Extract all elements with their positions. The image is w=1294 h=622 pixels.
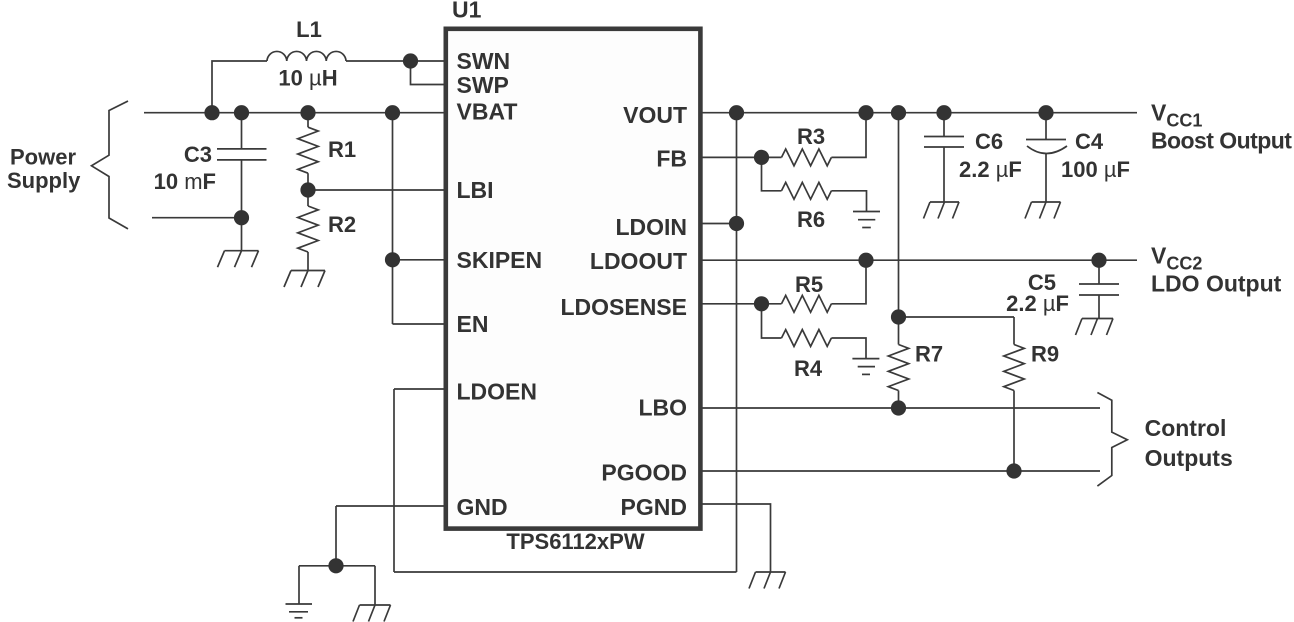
resistor R9 <box>1004 317 1059 471</box>
resistor R3 <box>762 113 867 166</box>
node LDOIN <box>729 216 744 231</box>
resistor R2 <box>298 190 356 271</box>
svg-text:VCC2: VCC2 <box>1151 243 1202 274</box>
ground (earth) below R6 <box>853 212 880 228</box>
wire LDOOUT rail <box>700 259 1137 261</box>
wire LDOEN <box>394 388 446 390</box>
svg-text:Control: Control <box>1145 415 1227 441</box>
svg-text:SKIPEN: SKIPEN <box>457 247 543 273</box>
wire LDOIN riser <box>736 113 738 572</box>
ground (chassis) below C3 <box>218 251 259 268</box>
node FB <box>754 150 769 165</box>
node VBAT-L1 <box>204 105 219 120</box>
wire VOUT rail <box>700 112 1137 114</box>
svg-text:LDOSENSE: LDOSENSE <box>560 294 687 320</box>
wire bottom run <box>394 571 737 573</box>
resistor R5 <box>762 260 867 312</box>
svg-text:LBO: LBO <box>638 395 687 421</box>
svg-text:LDO Output: LDO Output <box>1151 271 1282 297</box>
svg-text:R2: R2 <box>328 212 356 237</box>
svg-text:LDOOUT: LDOOUT <box>590 248 687 274</box>
svg-text:TPS6112xPW: TPS6112xPW <box>506 529 644 554</box>
svg-text:Supply: Supply <box>7 168 81 193</box>
svg-text:2.2 µF: 2.2 µF <box>959 157 1022 182</box>
wire SWN <box>346 60 446 62</box>
wire LBI <box>308 189 446 191</box>
svg-text:R3: R3 <box>797 124 825 149</box>
wire supply bottom <box>152 217 242 219</box>
svg-text:VCC1: VCC1 <box>1151 100 1202 131</box>
node R7 riser top <box>891 105 906 120</box>
wire VBAT rail <box>144 112 446 114</box>
node C4 top <box>1038 105 1053 120</box>
wire LDOSENSE <box>700 303 762 305</box>
wire SWP stub <box>411 61 447 85</box>
svg-text:Outputs: Outputs <box>1145 445 1233 471</box>
svg-text:SWN: SWN <box>457 48 511 74</box>
node R3 top <box>858 105 873 120</box>
node C3 bottom <box>234 210 249 225</box>
svg-text:GND: GND <box>457 494 508 520</box>
svg-text:L1: L1 <box>296 17 322 42</box>
wire SKIPEN/EN riser <box>392 113 394 324</box>
ground (chassis) below C4 <box>1025 202 1061 219</box>
capacitor C4 (polarized) <box>1026 113 1130 202</box>
svg-text:10 µH: 10 µH <box>278 66 337 91</box>
node GND bottom <box>328 558 343 573</box>
node R9-PGOOD <box>1006 463 1021 478</box>
node C5 top <box>1091 253 1106 268</box>
wire to chassis ground <box>374 566 376 605</box>
wire PGND <box>700 504 771 572</box>
capacitor C6 <box>924 113 1022 202</box>
node C6 top <box>936 105 951 120</box>
svg-text:R5: R5 <box>795 272 823 297</box>
svg-text:10 mF: 10 mF <box>154 169 216 194</box>
svg-text:PGND: PGND <box>621 494 687 520</box>
resistor R4 <box>762 304 867 381</box>
op-amp U1 (IC body TPS6112xPW) <box>446 0 701 554</box>
svg-text:Boost Output: Boost Output <box>1151 128 1292 154</box>
node R7 top <box>891 309 906 324</box>
wire R7 riser <box>898 113 900 317</box>
ground (earth) bottom left <box>286 604 313 618</box>
svg-text:C6: C6 <box>975 129 1003 154</box>
wire GND <box>336 505 446 507</box>
wire PGOOD <box>700 470 1100 472</box>
resistor R7 <box>888 317 943 408</box>
wire LDOIN stub <box>700 223 737 225</box>
svg-text:C3: C3 <box>184 142 212 167</box>
wire to earth ground <box>298 566 300 604</box>
node VOUT-LDOIN <box>729 105 744 120</box>
svg-text:LDOEN: LDOEN <box>457 379 538 405</box>
inductor L1 <box>267 17 346 91</box>
wire LDOEN drop <box>393 389 395 572</box>
capacitor C5 <box>1006 260 1119 318</box>
node SKIPEN <box>385 252 400 267</box>
svg-text:VOUT: VOUT <box>623 102 687 128</box>
resistor R6 <box>762 157 867 232</box>
svg-text:R7: R7 <box>915 342 943 367</box>
svg-text:LDOIN: LDOIN <box>615 214 687 240</box>
wire R7-R9 link <box>899 316 1015 318</box>
wire SKIPEN <box>393 259 447 261</box>
resistor R1 <box>298 113 356 190</box>
svg-text:R1: R1 <box>328 137 356 162</box>
brace Power Supply <box>7 101 128 229</box>
svg-text:R4: R4 <box>794 356 823 381</box>
node VCC1 label <box>1151 100 1292 154</box>
capacitor C3 <box>154 113 267 251</box>
node C3 top <box>234 105 249 120</box>
svg-text:U1: U1 <box>452 0 482 23</box>
wire FB <box>700 156 762 158</box>
node LDOOUT-R5 <box>858 253 873 268</box>
svg-text:R6: R6 <box>797 207 825 232</box>
node SWN junction <box>403 53 418 68</box>
svg-text:FB: FB <box>656 146 687 172</box>
svg-text:EN: EN <box>457 311 489 337</box>
wire L1 left riser <box>212 61 267 113</box>
ground (chassis) below PGND <box>749 572 786 589</box>
node EN riser top <box>385 105 400 120</box>
svg-text:100 µF: 100 µF <box>1061 157 1130 182</box>
svg-text:Power: Power <box>10 145 76 170</box>
wire GND bottom bar <box>299 565 375 567</box>
wire EN <box>393 323 447 325</box>
node VCC2 label <box>1151 243 1282 297</box>
node LDOSENSE <box>754 296 769 311</box>
wire GND drop <box>335 506 337 566</box>
svg-text:VBAT: VBAT <box>457 99 518 125</box>
ground (earth) below R4 <box>852 359 879 375</box>
ground (chassis) bottom left <box>353 605 391 622</box>
ground (chassis) below C5 <box>1076 319 1114 336</box>
svg-text:C4: C4 <box>1075 129 1104 154</box>
node LBI divider <box>300 182 315 197</box>
ground (chassis) below R2 <box>284 271 325 288</box>
svg-text:LBI: LBI <box>457 177 494 203</box>
node R7-LBO <box>891 400 906 415</box>
svg-text:R9: R9 <box>1031 342 1059 367</box>
svg-text:PGOOD: PGOOD <box>601 460 687 486</box>
brace Control Outputs <box>1097 393 1232 487</box>
wire LBO <box>700 407 1100 409</box>
svg-text:SWP: SWP <box>457 72 509 98</box>
node R1 top <box>300 105 315 120</box>
ground (chassis) below C6 <box>924 202 960 219</box>
svg-text:2.2 µF: 2.2 µF <box>1006 291 1069 316</box>
